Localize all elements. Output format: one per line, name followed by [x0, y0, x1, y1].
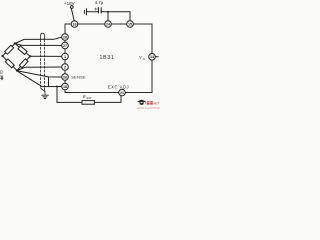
- svg-text:26: 26: [63, 75, 67, 79]
- wire bridge bottom to pin 18: [17, 71, 62, 87]
- svg-text:27: 27: [63, 44, 67, 48]
- svg-text:EXT: EXT: [87, 96, 92, 100]
- wire shield to ground: [41, 88, 45, 95]
- resistor R3 bottom-left arm: [5, 59, 14, 68]
- wire bridge right to pin 1: [30, 55, 62, 57]
- cable shield top arc: [41, 33, 45, 39]
- svg-text:21: 21: [120, 91, 124, 95]
- wire bridge top to pin 27: [15, 44, 62, 46]
- watermark logo: [137, 100, 162, 110]
- svg-text:1: 1: [64, 55, 66, 59]
- wire bridge bottom to pin 26: [17, 71, 62, 77]
- wire down to pin 15: [129, 12, 131, 21]
- pin 14 output: [149, 54, 159, 61]
- svg-text:WWW.KAOSHIW.NET: WWW.KAOSHIW.NET: [137, 107, 160, 110]
- pin 18: [62, 83, 69, 90]
- bridge B1 (350 ohm strain gauge): [1, 42, 31, 71]
- cable shield dashed line left: [40, 40, 42, 89]
- pin 1: [62, 53, 69, 60]
- ground (capacitor side): [84, 9, 86, 15]
- junction pin18 wire to Rext: [56, 86, 58, 88]
- wire resistor to EXC ADJ pin: [95, 96, 122, 103]
- svg-text:15: 15: [128, 22, 132, 26]
- +18V supply terminal: [64, 1, 75, 9]
- svg-text:28: 28: [63, 35, 67, 39]
- resistor R2 top-right arm: [18, 46, 27, 55]
- label Vo: [139, 55, 146, 61]
- svg-text:NET: NET: [153, 102, 159, 106]
- wire junction down to pin 24: [107, 12, 109, 21]
- label 350 ohm bridge (clipped at edge): [0, 69, 3, 80]
- wire to resistor Rext: [57, 101, 82, 103]
- svg-text:16: 16: [72, 22, 76, 26]
- IC U1 1B31 box outline: [65, 24, 152, 93]
- pin 16: [71, 21, 78, 28]
- capacitor C1 4.7u: [95, 0, 104, 13]
- svg-text:18: 18: [63, 85, 67, 89]
- resistor Rext: [82, 101, 95, 105]
- wire C1 to top pins: [101, 11, 130, 13]
- bridge side bottom-left: [3, 56, 18, 71]
- bridge side top-left: [3, 44, 16, 57]
- resistor R4 bottom-right arm: [19, 59, 28, 68]
- bridge side top-right: [15, 44, 30, 57]
- svg-text:R: R: [82, 94, 86, 99]
- svg-text:SENSE: SENSE: [71, 75, 86, 80]
- wire down from pin18 line: [56, 87, 58, 103]
- pin 28: [62, 34, 69, 41]
- label Rext: [82, 94, 92, 100]
- pin 27: [62, 42, 69, 49]
- node top junction: [14, 42, 16, 44]
- wire ground to C1: [86, 11, 98, 13]
- svg-text:1B31: 1B31: [100, 55, 115, 61]
- bridge side bottom-right: [17, 56, 30, 70]
- wire bridge top to pin 28: [15, 37, 62, 43]
- node right junction: [29, 55, 31, 57]
- node left junction: [1, 55, 3, 57]
- svg-text:4.7µ: 4.7µ: [95, 0, 104, 5]
- pin 15: [127, 21, 134, 28]
- pin 26: [62, 74, 69, 81]
- node bottom junction: [16, 69, 18, 71]
- pin 2: [62, 64, 69, 71]
- svg-text:+18V: +18V: [64, 1, 75, 6]
- junction above pin 24: [107, 11, 109, 13]
- svg-text:2: 2: [64, 65, 66, 69]
- wire +18V to pin16: [71, 8, 74, 20]
- svg-text:0Ω: 0Ω: [0, 69, 3, 74]
- wire link sense to excitation: [48, 77, 50, 87]
- pin 21 exc adj: [119, 89, 126, 96]
- pin 24: [105, 21, 112, 28]
- svg-text:EXC ADJ: EXC ADJ: [108, 84, 129, 89]
- wire bridge bottom to pin 2: [17, 67, 62, 71]
- cable shield dashed line right: [43, 40, 45, 89]
- ground (shield): [42, 95, 49, 98]
- resistor R1 top-left arm: [5, 45, 14, 54]
